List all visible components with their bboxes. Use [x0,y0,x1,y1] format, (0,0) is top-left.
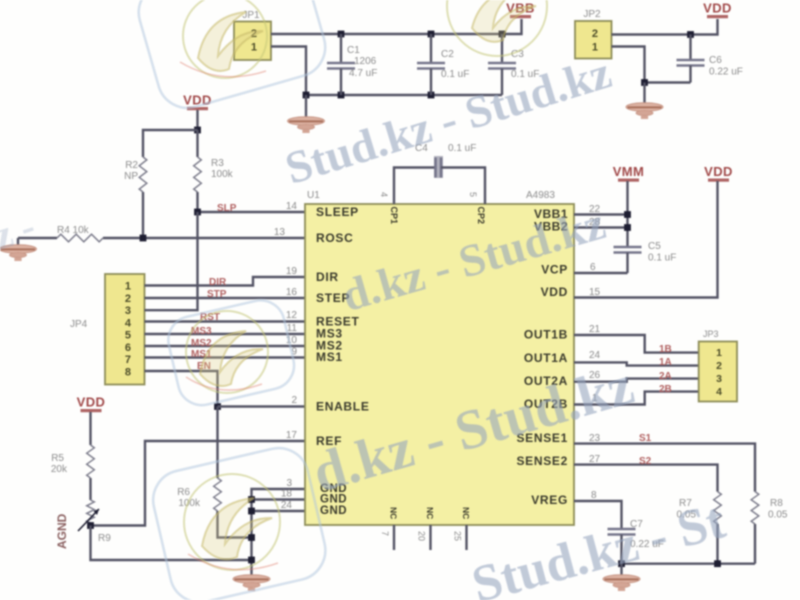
wire OUT2A pin 26 to JP3 pin 3 [574,379,699,382]
svg-text:ENABLE: ENABLE [316,400,370,414]
wire VDD stem [196,110,198,130]
svg-text:DIR: DIR [209,277,227,288]
wire SENSE2 pin 27 / net S2 [574,465,718,492]
junction C7 rail [618,560,625,567]
junction R7 rail [714,560,721,567]
wire R2 bottom to ROSC net [142,192,144,238]
capacitor C2 0.1uF [417,34,469,95]
svg-text:VDD: VDD [541,285,568,299]
wire OUT1B pin 21 to JP3 pin 1 [574,335,699,353]
svg-text:1: 1 [251,42,257,54]
svg-text:NP: NP [124,171,138,182]
svg-text:4: 4 [716,386,722,398]
svg-text:EN: EN [197,361,211,372]
junction at C1 top [338,31,345,38]
ground at R4 [0,238,37,261]
supply VDD top right [703,1,732,19]
svg-text:OUT1B: OUT1B [524,328,568,342]
svg-text:R8: R8 [770,498,783,509]
wire NC pin 7 stub [393,525,395,550]
wire VMM to VBB1 VBB2 and C5 [626,181,628,247]
wire R5 to R9 [89,478,91,500]
svg-text:4: 4 [125,317,132,329]
svg-text:NC: NC [461,507,471,519]
svg-text:2: 2 [291,395,297,406]
svg-text:2: 2 [125,293,131,305]
wire VDD to R5 [89,412,91,445]
svg-text:0.05: 0.05 [768,510,788,521]
svg-text:13: 13 [274,227,286,238]
svg-text:4.7 uF: 4.7 uF [349,68,377,79]
wire JP2 pin 1 to ground [612,47,691,83]
resistor R3 100k [194,130,234,192]
resistor R8 0.05 [751,492,788,524]
ground under JP1 [288,95,325,133]
resistor R2 NP [124,157,147,192]
capacitor C5 0.1uF [614,241,677,273]
svg-text:MS1: MS1 [316,350,343,364]
svg-text:JP4: JP4 [70,319,88,330]
junction VBB1 [624,211,631,218]
wire GND pin 3 to bus [252,489,306,575]
svg-text:R4 10k: R4 10k [57,225,90,236]
svg-text:2: 2 [716,360,722,372]
capacitor C3 0.1uF [488,34,539,95]
wire MS3 (JP4 pin 5 to MS3 pin 11) [145,333,306,335]
svg-text:5: 5 [468,192,478,197]
wire NC pin 20 stub [429,525,431,550]
svg-text:ROSC: ROSC [316,231,353,245]
resistor R7 0.05 [677,492,722,524]
wire MS2 (JP4 pin 6 to MS2 pin 10) [145,345,306,347]
svg-text:3: 3 [125,305,131,317]
IC pin names GND [320,483,347,517]
svg-text:17: 17 [286,430,298,441]
wire JP2 pin 2 to VDD [612,19,718,35]
wire REF (pin 17 to R9 wiper) [90,441,305,526]
svg-text:CP2: CP2 [476,207,486,225]
wire R6 bottom to ground bus [218,511,252,538]
wire GND pin 18 to bus [252,498,306,500]
junction VBB2 [624,224,631,231]
svg-text:SLP: SLP [217,203,237,214]
svg-text:VDD: VDD [77,395,106,410]
svg-text:10: 10 [286,335,298,346]
svg-text:8: 8 [125,366,131,378]
junction bus pin18 [248,496,255,503]
svg-text:VDD: VDD [704,164,733,179]
junction R9 wiper / REF [87,522,94,529]
svg-text:4: 4 [379,192,389,197]
svg-text:NC: NC [425,507,435,519]
junction bus R6 [248,534,255,541]
IC pin names NC rotated at bottom [389,507,472,519]
svg-text:7: 7 [380,531,390,536]
junction SLP node [194,209,201,216]
connector JP4 [70,274,145,385]
wire VREG pin 8 to C7 [574,501,622,529]
svg-text:20: 20 [417,531,427,541]
junction ENABLE net [214,403,221,410]
svg-text:C6: C6 [709,55,722,66]
wire SLP (JP4 pin 3 to SLEEP net) [145,212,198,310]
svg-text:U1: U1 [307,190,320,201]
supply VMM [613,164,645,182]
svg-text:1A: 1A [659,357,672,368]
svg-text:2A: 2A [659,371,672,382]
svg-text:C2: C2 [441,49,454,60]
wire VDD junction to R2 top [143,130,198,157]
capacitor C1 4.7uF 1206 [327,34,377,95]
svg-text:1206: 1206 [354,56,377,67]
svg-text:MS1: MS1 [191,349,212,360]
svg-text:7: 7 [125,354,131,366]
svg-text:24: 24 [281,500,293,511]
junction at ground stem under JP2 [641,79,648,86]
svg-text:1: 1 [125,281,131,293]
svg-text:SENSE2: SENSE2 [516,454,568,468]
svg-text:C5: C5 [648,241,661,252]
wire MS1 (JP4 pin 7 to MS1 pin 9) [145,356,306,358]
svg-text:18: 18 [281,489,293,500]
wire EN (JP4 pin 8 to ENABLE net) [145,371,218,407]
ground rail under C1 C2 C3 [306,94,502,96]
connector JP3 [699,329,737,402]
svg-text:VBB: VBB [506,1,535,16]
supply VDD right [704,164,733,182]
svg-text:R5: R5 [51,453,64,464]
wire VBB rail (JP1 pin 2 to VBB) [271,19,522,34]
wire VBB1 pin 22 [574,213,628,215]
junction at C3 top [499,31,506,38]
junction at C1 bottom [338,92,345,99]
resistor R6 100k [177,478,221,511]
supply VDD at R5 [77,395,106,413]
svg-text:2: 2 [592,28,598,40]
wire OUT1A pin 24 to JP3 pin 2 [574,362,699,365]
wire ENABLE to pin 2 [218,405,306,407]
capacitor C4 0.1uF [415,143,476,178]
svg-text:1B: 1B [659,344,672,355]
svg-text:25: 25 [453,531,463,541]
svg-text:6: 6 [590,262,596,273]
svg-text:SLEEP: SLEEP [316,205,359,219]
wire sense ground rail [622,563,756,565]
wire VBB2 pin 28 [574,226,628,228]
ground at GND bus [233,575,270,591]
svg-text:C1: C1 [347,45,360,56]
wire R3 bottom / SLP node to SLEEP pin 14 [198,192,306,212]
svg-text:0.22 uF: 0.22 uF [709,67,743,78]
junction VDD / R2 R3 [194,127,201,134]
trimmer R9 [78,500,111,544]
wire R7 bottom to rail [716,524,718,564]
junction R2 / ROSC wire [140,235,147,242]
wire R9 bottom to ground bus rail [91,526,252,561]
svg-text:3: 3 [716,373,722,385]
svg-text:R2: R2 [125,160,138,171]
wire R8 bottom to rail [754,524,756,564]
ground under JP2 [626,83,663,120]
svg-text:CP1: CP1 [389,207,399,225]
svg-text:C3: C3 [511,49,524,60]
wire VDD to pin 15 [574,181,718,298]
junction bus pin24 [248,508,255,515]
svg-text:OUT1A: OUT1A [524,351,568,365]
svg-text:2: 2 [251,28,257,40]
wire C5 to VCP pin 6 [574,272,628,274]
svg-text:12: 12 [286,310,298,321]
svg-text:JP1: JP1 [242,10,260,21]
svg-text:100k: 100k [211,169,234,180]
svg-text:GND: GND [320,505,347,517]
svg-text:S2: S2 [639,456,652,467]
wire SENSE1 pin 23 / net S1 [574,444,755,492]
svg-text:3: 3 [286,478,292,489]
svg-text:STP: STP [207,289,227,300]
svg-text:A4983: A4983 [526,190,555,201]
svg-text:JP3: JP3 [703,329,719,339]
svg-text:MS2: MS2 [191,338,212,349]
wire ENABLE junction to R6 [216,407,218,479]
svg-text:0.1 uF: 0.1 uF [441,69,469,80]
svg-text:20k: 20k [51,464,68,475]
connector JP1 [234,10,271,60]
op-amp U1 A4983 driver IC body [305,190,574,525]
svg-text:VDD: VDD [703,1,732,16]
wire STP (JP4 pin 2 to STEP pin 16) [145,297,306,299]
svg-text:11: 11 [287,323,298,334]
wire GND pin 24 to bus [252,510,306,512]
wire DIR (JP4 pin 1 to DIR pin 19) [145,277,306,286]
junction at C2 top [428,31,435,38]
capacitor C7 0.22uF [608,519,664,564]
svg-text:23: 23 [589,433,601,444]
wire ground to R4 [18,237,57,239]
svg-text:R6: R6 [177,487,190,498]
svg-text:0.1 uF: 0.1 uF [648,253,676,264]
svg-text:15: 15 [589,287,601,298]
svg-text:8: 8 [591,490,597,501]
svg-text:S1: S1 [639,433,652,444]
resistor R4 10k [57,225,103,242]
resistor R5 20k [51,445,94,478]
svg-text:5: 5 [125,330,131,342]
svg-text:21: 21 [589,324,601,335]
supply VDD left [183,93,212,111]
svg-text:2B: 2B [659,384,672,395]
svg-text:100k: 100k [178,498,201,509]
svg-text:R9: R9 [98,533,111,544]
junction at ground rail / ground stem [303,92,310,99]
wire R4 to ROSC pin 13 [103,237,305,239]
svg-text:R3: R3 [211,158,224,169]
svg-text:1: 1 [716,347,722,359]
ground at C7 [603,564,640,591]
junction at C6 top [687,31,694,38]
wire RST (JP4 pin 4 to RESET pin 12) [145,320,306,322]
svg-text:VDD: VDD [183,93,212,108]
wire JP1 pin 1 to ground rail [271,47,306,96]
svg-text:VREG: VREG [531,493,568,507]
svg-text:AGND: AGND [55,513,69,549]
junction at C2 bottom [428,92,435,99]
svg-text:VMM: VMM [613,164,645,179]
wire OUT2B pin 1 to JP3 pin 4 [574,392,699,405]
connector JP2 [575,9,612,59]
svg-text:16: 16 [286,287,298,298]
capacitor C6 0.22uF [677,35,743,83]
junction bus AGND rail [248,557,255,564]
supply VBB [506,1,535,19]
svg-text:9: 9 [291,347,297,358]
svg-text:MS3: MS3 [191,326,212,337]
svg-text:27: 27 [589,454,601,465]
wire CP1 to C4 [394,168,436,205]
wire NC pin 25 stub [465,525,467,550]
svg-text:NC: NC [389,507,399,519]
wire C4 to CP2 [441,168,485,205]
svg-text:RST: RST [200,312,220,323]
svg-text:JP2: JP2 [583,9,601,20]
svg-text:14: 14 [286,201,298,212]
svg-text:19: 19 [286,266,298,277]
svg-text:6: 6 [125,342,131,354]
